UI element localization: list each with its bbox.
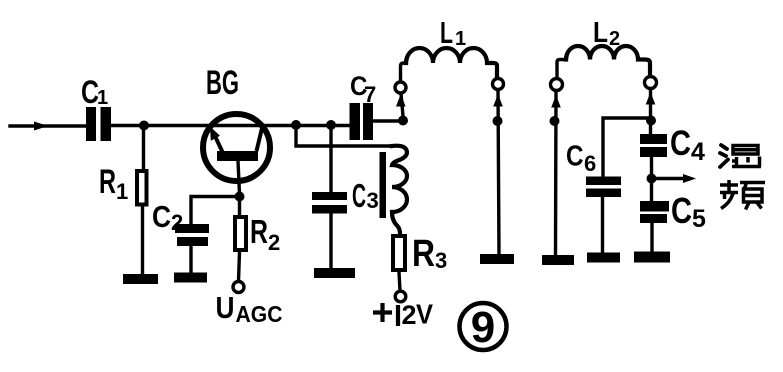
svg-text:U: U (216, 290, 235, 325)
svg-text:L: L (440, 16, 453, 50)
svg-text:C: C (152, 200, 171, 234)
svg-text:L: L (593, 17, 608, 49)
svg-text:V: V (416, 299, 433, 330)
svg-text:BG: BG (206, 64, 239, 102)
svg-text:5: 5 (692, 205, 706, 233)
svg-text:1: 1 (116, 179, 128, 204)
svg-text:3: 3 (367, 188, 379, 213)
svg-text:7: 7 (364, 82, 376, 107)
svg-text:R: R (412, 233, 435, 275)
svg-text:2: 2 (402, 300, 417, 330)
svg-text:C: C (671, 190, 692, 231)
svg-text:R: R (99, 163, 116, 201)
svg-text:1: 1 (455, 28, 466, 50)
svg-text:3: 3 (435, 248, 447, 273)
svg-text:2: 2 (609, 28, 620, 50)
svg-text:2: 2 (171, 210, 183, 235)
svg-text:AGC: AGC (236, 301, 283, 327)
svg-text:1: 1 (97, 87, 108, 109)
svg-text:6: 6 (584, 151, 596, 176)
svg-text:2: 2 (268, 230, 280, 255)
svg-text:R: R (250, 213, 268, 250)
svg-text:C: C (352, 177, 366, 214)
svg-text:C: C (566, 141, 584, 173)
svg-text:C: C (670, 124, 691, 163)
svg-text:9: 9 (471, 303, 495, 352)
svg-text:4: 4 (691, 138, 705, 166)
